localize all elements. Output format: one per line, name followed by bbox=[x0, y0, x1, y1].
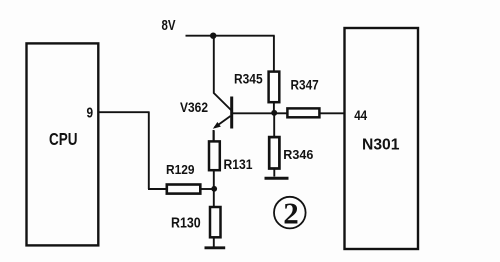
resistor R129 bbox=[148, 185, 215, 194]
svg-text:V362: V362 bbox=[180, 99, 208, 115]
svg-text:44: 44 bbox=[354, 108, 367, 123]
svg-text:9: 9 bbox=[87, 105, 94, 122]
transistor V362 bbox=[213, 97, 232, 129]
svg-text:R131: R131 bbox=[224, 157, 253, 172]
resistor R345 bbox=[269, 72, 280, 114]
svg-text:R129: R129 bbox=[166, 162, 195, 177]
wire pin 9 horizontal from CPU bbox=[98, 111, 149, 113]
junction dot on 8V rail bbox=[210, 33, 216, 39]
ground under R346 bbox=[265, 177, 289, 180]
wire vertical from pin 9 down to R129 bbox=[148, 112, 150, 189]
svg-text:R345: R345 bbox=[234, 71, 263, 86]
resistor R347 bbox=[274, 108, 345, 117]
wire base lead to node bbox=[232, 112, 274, 114]
ground under R130 bbox=[205, 246, 226, 249]
svg-text:2: 2 bbox=[283, 195, 299, 230]
svg-text:R346: R346 bbox=[283, 147, 313, 162]
svg-text:CPU: CPU bbox=[49, 129, 78, 149]
IC box N301 bbox=[345, 28, 419, 249]
wire 8V rail bbox=[186, 35, 275, 37]
wire collector from 8V rail down to transistor bbox=[214, 36, 231, 110]
figure number circled 2 bbox=[274, 195, 306, 230]
junction node R129/R131/R130 bbox=[211, 186, 217, 192]
wire from rail corner down to R345 bbox=[273, 36, 275, 72]
resistor R130 bbox=[210, 189, 221, 247]
resistor R131 bbox=[209, 131, 220, 189]
svg-text:N301: N301 bbox=[362, 137, 400, 154]
resistor R346 bbox=[269, 113, 279, 176]
svg-text:8V: 8V bbox=[162, 17, 176, 34]
IC box CPU bbox=[27, 43, 99, 245]
svg-text:R347: R347 bbox=[291, 77, 319, 93]
wire emitter down to R131 bbox=[213, 130, 215, 141]
junction node base/R345/R346/R347 bbox=[271, 110, 277, 116]
svg-text:R130: R130 bbox=[171, 216, 201, 232]
